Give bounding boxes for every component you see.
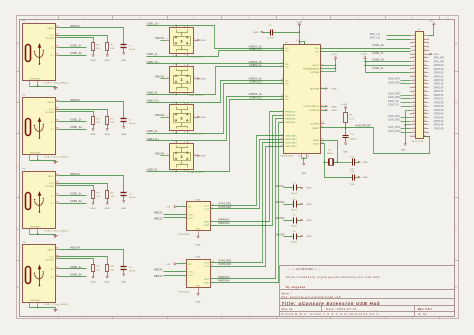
capacitor C3: [121, 193, 137, 200]
svg-text:TSTPLL/48MCLK: TSTPLL/48MCLK: [303, 106, 320, 108]
svg-text:USB1_D-: USB1_D-: [147, 53, 159, 56]
wire USB3_D- from P3: [59, 195, 87, 197]
svg-text:USB3_D+: USB3_D+: [70, 200, 83, 203]
svg-text:GPIO38: GPIO38: [434, 102, 444, 104]
svg-text:VBUS: VBUS: [47, 102, 54, 104]
label OVRCUR1: [218, 203, 231, 205]
svg-text:B: B: [17, 102, 19, 104]
junction vcc: [299, 31, 300, 42]
svg-text:5k1: 5k1: [111, 196, 116, 198]
svg-text:GPIO40: GPIO40: [434, 110, 444, 112]
wire XTAL1 to crystal: [321, 141, 338, 163]
label SPK_RN: [434, 61, 445, 63]
ground left of C9: [253, 31, 270, 34]
svg-text:GPIO29: GPIO29: [434, 69, 444, 71]
wire PWRON3 to hub: [211, 119, 284, 279]
label USBH3_D+ at hub: [249, 79, 263, 81]
svg-text:TBD: TBD: [350, 169, 355, 171]
svg-text:EXTMEM: EXTMEM: [310, 72, 319, 74]
junction reset/R9/C10: [345, 127, 347, 129]
svg-text:PWRON3: PWRON3: [218, 277, 230, 279]
label USB1_DP upstream: [373, 45, 385, 47]
wire USB1_D+ from P1: [59, 55, 87, 57]
svg-text:100nF: 100nF: [291, 193, 298, 195]
label OVRCUR3: [218, 261, 231, 263]
wire HBUS4 to esd pin5: [161, 155, 167, 157]
label CAM_DN1: [388, 119, 411, 122]
label USB4_D+: [70, 274, 83, 277]
svg-text:USB1_D+: USB1_D+: [373, 45, 385, 47]
svg-text:GPIO28: GPIO28: [434, 65, 444, 67]
svg-text:USBH3_D-: USBH3_D-: [249, 81, 262, 83]
wire HBUS3 to U1B OUT1: [164, 271, 187, 273]
usb connector P3: [23, 169, 70, 235]
svg-text:GPIO31: GPIO31: [434, 76, 444, 78]
svg-text:GPIO30: GPIO30: [434, 73, 444, 75]
power +5V at connector: [429, 20, 436, 25]
junction eeprom rail: [335, 65, 336, 70]
ground at esd U3 pin2: [198, 78, 207, 81]
label HBUS3 at esd: [155, 114, 165, 117]
resistor R4: [106, 117, 116, 128]
svg-text:100uF: 100uF: [129, 123, 136, 125]
label GPIO43: [434, 121, 444, 123]
svg-text:4.7k: 4.7k: [349, 118, 354, 120]
svg-text:USB_C_Plug_USB2.0: USB_C_Plug_USB2.0: [45, 230, 70, 232]
label USBH1_D+ at hub: [249, 46, 263, 48]
ground under U1B: [195, 288, 201, 304]
svg-text:BUSPWR: BUSPWR: [310, 89, 319, 91]
svg-text:100nF: 100nF: [267, 38, 274, 40]
label HBUS2 at esd: [155, 76, 165, 79]
label USB1_D+: [70, 52, 83, 55]
label PWRON2: [218, 223, 230, 225]
svg-text:OVRCUR1: OVRCUR1: [285, 136, 297, 138]
capacitor C9: [267, 25, 274, 39]
svg-text:GND: GND: [201, 117, 207, 119]
svg-text:VCONN: VCONN: [45, 186, 54, 188]
svg-text:USB1_D-: USB1_D-: [70, 44, 82, 47]
svg-text:USB4_D+: USB4_D+: [70, 274, 83, 277]
svg-text:HBUS4: HBUS4: [154, 276, 163, 278]
svg-text:USB2_D-: USB2_D-: [147, 92, 159, 95]
capacitor C5: [284, 183, 301, 196]
svg-text:Rev: 0.6.1: Rev: 0.6.1: [418, 308, 433, 311]
svg-text:PWRON1: PWRON1: [218, 220, 230, 222]
svg-text:HBUS1: HBUS1: [154, 212, 163, 214]
svg-text:GND: GND: [306, 188, 312, 190]
svg-text:GND: GND: [195, 302, 201, 304]
label GPIO35: [434, 91, 444, 93]
label HBUS3: [154, 270, 163, 272]
svg-text:SPK_RN: SPK_RN: [434, 61, 445, 63]
power +3.3V above R9: [340, 104, 347, 110]
svg-text:OVRCUR2: OVRCUR2: [218, 207, 231, 209]
junction shield P3: [37, 233, 39, 235]
svg-text:GND: GND: [105, 60, 111, 62]
label CAM_DP3: [388, 78, 411, 81]
svg-text:+3.3V: +3.3V: [360, 54, 367, 56]
svg-text:B: B: [455, 102, 457, 104]
label SPK_LP: [370, 34, 411, 36]
svg-text:PWRON2: PWRON2: [285, 115, 296, 117]
label GPIO36: [434, 95, 444, 97]
svg-text:SPK_LP: SPK_LP: [370, 34, 380, 36]
svg-text:C10: C10: [350, 134, 355, 136]
svg-text:D-: D-: [51, 121, 54, 123]
svg-text:E: E: [455, 287, 457, 289]
svg-text:HBUS2: HBUS2: [155, 76, 165, 79]
label CAM_DP2: [388, 93, 411, 96]
svg-text:GPIO36: GPIO36: [434, 95, 444, 97]
ground under U1A: [195, 231, 201, 247]
svg-text:USB_C_Plug_USB2.0: USB_C_Plug_USB2.0: [45, 304, 70, 306]
svg-text:100uF: 100uF: [129, 197, 136, 199]
ground under R1: [90, 54, 96, 62]
label CAM_DP1: [388, 115, 411, 118]
svg-text:E: E: [17, 287, 19, 289]
junction esd U4 pin1: [175, 102, 176, 103]
svg-text:GND: GND: [401, 150, 407, 152]
svg-text:HUB_RESET: HUB_RESET: [355, 126, 371, 128]
svg-text:IN1: IN1: [188, 207, 192, 209]
ground under R6: [105, 202, 111, 210]
label GPIO33: [434, 84, 444, 86]
ground below connector: [401, 143, 407, 152]
svg-text:17: 17: [281, 63, 283, 65]
label GPIO29: [434, 69, 444, 71]
no-connect marks left: [410, 42, 412, 137]
chassis ground P4: [54, 308, 58, 312]
usb connector P4: [23, 242, 70, 307]
svg-text:https://codeberg.org/argrento/: https://codeberg.org/argrento/uconsole-e…: [286, 275, 380, 279]
svg-text:6MHz: 6MHz: [327, 153, 333, 155]
svg-text:GPIO42: GPIO42: [434, 117, 444, 119]
svg-text:D: D: [17, 229, 19, 231]
svg-text:Id: 1/1: Id: 1/1: [418, 313, 427, 316]
ground at esd U2 pin2: [198, 39, 207, 42]
wire HBUS1 to esd pin5: [161, 40, 167, 42]
svg-text:C11: C11: [350, 157, 355, 159]
label VBUS3: [276, 218, 285, 220]
svg-text:RESET: RESET: [312, 128, 320, 130]
wire USB_UP_D+ hub to connector: [321, 48, 411, 50]
svg-text:EN1: EN1: [205, 279, 209, 281]
label GPIO44: [434, 125, 444, 127]
capacitor C7: [284, 215, 301, 228]
wire USB2_D- from P2: [59, 121, 87, 123]
svg-text:GND: GND: [201, 40, 207, 42]
svg-text:16: 16: [281, 66, 283, 68]
wire USB4_D+ esd to hub: [147, 97, 284, 141]
wire connector ground pins: [406, 111, 411, 143]
label HBUS4: [154, 276, 163, 278]
resistor R5: [92, 191, 102, 202]
label USB1_D+ at esd: [147, 22, 160, 25]
svg-text:EECLK: EECLK: [312, 65, 319, 67]
svg-text:GND: GND: [306, 220, 312, 222]
label USB2_D- at esd: [147, 92, 159, 95]
svg-text:CC1: CC1: [49, 257, 54, 259]
svg-text:HBUS4: HBUS4: [155, 153, 165, 156]
wire OVRCUR4 to hub: [211, 147, 284, 267]
svg-text:U1B: U1B: [195, 257, 200, 259]
svg-text:C: C: [17, 166, 19, 168]
svg-text:USB3_D+: USB3_D+: [147, 99, 160, 102]
svg-text:OUT1: OUT1: [188, 214, 194, 216]
svg-text:32: 32: [296, 40, 298, 42]
svg-text:GND: GND: [306, 236, 312, 238]
wire +5V to connector pin 2: [429, 26, 434, 36]
esd protection U2 USBLC6-2P6: [167, 26, 204, 59]
svg-text:GND: GND: [105, 208, 111, 210]
wire CC1 to R6: [59, 184, 108, 191]
svg-text:5k1: 5k1: [96, 48, 101, 50]
resistor R9: [344, 110, 354, 128]
label VBUS1: [276, 186, 285, 188]
ground under R8: [105, 276, 111, 284]
svg-text:GND: GND: [105, 281, 111, 283]
label USB1_DN upstream: [373, 53, 384, 55]
label HBUS1: [70, 25, 80, 28]
label USB2_D-: [70, 118, 82, 121]
svg-text:D-: D-: [51, 47, 54, 49]
svg-text:GND: GND: [90, 281, 96, 283]
label HBUS3: [70, 173, 80, 176]
svg-text:TUSB2046B: TUSB2046B: [280, 155, 294, 157]
title block: [280, 266, 455, 317]
svg-text:MXJ_PCE: MXJ_PCE: [412, 141, 423, 143]
svg-text:EN2: EN2: [205, 225, 209, 227]
svg-text:USB1_D-: USB1_D-: [373, 53, 384, 55]
svg-text:VBUS3: VBUS3: [276, 218, 285, 220]
label USB3_D+ at esd: [147, 99, 160, 102]
esd protection U3 USBLC6-2P6: [167, 64, 204, 97]
wire HBUS2 to U1A OUT2: [164, 217, 187, 219]
usb connector P2: [23, 95, 70, 161]
svg-text:OVRCUR3: OVRCUR3: [285, 143, 297, 145]
svg-text:IN2: IN2: [188, 264, 192, 266]
svg-text:OUT1: OUT1: [188, 272, 194, 274]
capacitor C13: [350, 172, 359, 186]
wire XTAL2 to crystal and C13: [321, 144, 353, 178]
junction shield P4: [37, 307, 39, 309]
label USBH1_D- at hub: [249, 49, 262, 51]
svg-text:VBUS: VBUS: [47, 249, 54, 251]
svg-text:HBUS2: HBUS2: [70, 99, 80, 102]
junction esd U5 pin1: [175, 140, 176, 141]
wire USB_UP_D- hub to connector: [321, 51, 411, 53]
svg-text:15: 15: [307, 156, 309, 158]
svg-text:GPIO39: GPIO39: [434, 106, 444, 108]
svg-text:+5V: +5V: [166, 207, 171, 209]
wire shield of P2: [30, 160, 56, 162]
junction esd U5 pin3: [175, 171, 176, 172]
label CAM_DN0: [388, 130, 411, 133]
label VBUS2: [276, 202, 285, 204]
label VBUS4: [276, 234, 285, 236]
svg-text:D-: D-: [51, 195, 54, 197]
svg-text:VBUS2: VBUS2: [276, 202, 285, 204]
svg-text:GND: GND: [90, 60, 96, 62]
label USB2_D+: [70, 126, 83, 129]
label USB3_D+: [70, 200, 83, 203]
svg-text:OC1: OC1: [204, 205, 209, 207]
wire USB2_D- esd to hub: [147, 67, 284, 95]
svg-text:100uF: 100uF: [129, 271, 136, 273]
svg-text:VCONN: VCONN: [45, 260, 54, 262]
svg-text:GND: GND: [105, 134, 111, 136]
label HUB_RESET: [355, 126, 371, 128]
connector J1 uConsole extension: [411, 29, 429, 143]
wire HBUS4 to U1B OUT2: [164, 275, 187, 277]
label SPK_RP: [434, 58, 445, 60]
label USB2_DN: [373, 68, 384, 70]
svg-text:USBH3_D+: USBH3_D+: [249, 79, 263, 81]
svg-text:USBH4_D+: USBH4_D+: [249, 94, 263, 96]
svg-text:GND: GND: [306, 204, 312, 206]
esd protection U4 USBLC6-2P6: [167, 103, 204, 136]
svg-text:GPIO32: GPIO32: [434, 80, 444, 82]
wire CC1 to R2: [59, 36, 108, 43]
svg-text:HBUS1: HBUS1: [155, 37, 165, 40]
svg-text:GND: GND: [343, 152, 349, 154]
svg-text:TSTMODE: TSTMODE: [309, 110, 320, 112]
svg-text:OUT2: OUT2: [188, 275, 194, 277]
svg-text:20: 20: [281, 79, 283, 81]
wire USB2_D+ from P2: [59, 129, 87, 131]
svg-text:GND: GND: [363, 177, 369, 179]
svg-text:B5: B5: [56, 36, 59, 38]
wire +3.3V to hub vcc pins: [300, 26, 305, 45]
svg-text:Title: uConsole Extension USB: Title: uConsole Extension USB Hub: [282, 301, 381, 306]
svg-text:D2+: D2+: [285, 64, 290, 66]
svg-text:GPIO35: GPIO35: [434, 91, 444, 93]
esd protection U5 USBLC6-2P6: [167, 141, 204, 174]
label OVRCUR4: [218, 264, 231, 266]
wire C9 to +3.3V rail: [273, 32, 300, 34]
svg-text:D4+: D4+: [285, 96, 290, 98]
svg-text:DO-: DO-: [315, 52, 319, 54]
wire HBUS4 (VBUS of P4): [59, 250, 124, 267]
ground at TSTMODE pin: [321, 109, 338, 112]
label CAM_CN: [388, 104, 411, 107]
junction esd U2 pin3: [175, 55, 176, 56]
ground at connector right: [429, 53, 439, 56]
junction connector ground: [404, 124, 406, 126]
label GPIO40: [434, 110, 444, 112]
svg-text:USBLC6-2P6: USBLC6-2P6: [189, 95, 204, 97]
label HBUS4 at esd: [155, 153, 165, 156]
capacitor C6: [284, 199, 301, 212]
junction second usb rail: [364, 61, 365, 66]
label HBUS1: [154, 212, 163, 214]
svg-text:GND: GND: [90, 208, 96, 210]
svg-text:GPIO45: GPIO45: [434, 128, 444, 130]
svg-text:PWRON1: PWRON1: [285, 112, 296, 114]
ground under C3: [121, 200, 127, 210]
wire VCONN to R3: [59, 112, 94, 117]
label GPIO41: [434, 114, 444, 116]
power +5V at U1B: [166, 263, 187, 266]
svg-text:USB3_D-: USB3_D-: [70, 192, 82, 195]
svg-text:USB1_D+: USB1_D+: [147, 22, 160, 25]
frame row ticks and letters: [17, 42, 459, 289]
svg-text:5k1: 5k1: [96, 122, 101, 124]
label GPIO30: [434, 73, 444, 75]
wire USB1_D+ esd to hub: [147, 26, 284, 49]
svg-text:GPIO33: GPIO33: [434, 84, 444, 86]
svg-text:5k1: 5k1: [111, 270, 116, 272]
svg-text:USBH1_D+: USBH1_D+: [249, 46, 263, 48]
ground under R7: [90, 276, 96, 284]
label USB4_D-: [70, 266, 82, 269]
svg-text:19: 19: [281, 82, 283, 84]
svg-text:HBUS1: HBUS1: [70, 25, 80, 28]
svg-text:GND: GND: [121, 281, 127, 283]
wire CC1 to R4: [59, 110, 108, 117]
junction esd U4 pin3: [175, 132, 176, 133]
svg-text:23: 23: [281, 95, 283, 97]
junction esd U3 pin1: [175, 63, 176, 64]
svg-text:VBUS: VBUS: [47, 176, 54, 178]
svg-text:OVRCUR3: OVRCUR3: [218, 261, 231, 263]
wire USB2_DN to connector: [366, 65, 411, 67]
label HBUS4: [70, 246, 80, 249]
svg-text:OVRCUR1: OVRCUR1: [218, 203, 231, 205]
svg-text:GND: GND: [332, 106, 338, 108]
svg-text:GND: GND: [253, 32, 259, 34]
capacitor C2: [121, 119, 137, 126]
svg-text:PWRON2: PWRON2: [218, 223, 230, 225]
svg-text:GPIO34: GPIO34: [434, 87, 444, 89]
svg-text:100nF: 100nF: [291, 209, 298, 211]
resistor R6: [106, 191, 116, 202]
wire HBUS2 (VBUS of P2): [59, 102, 124, 119]
svg-text:Sheet: /: Sheet: /: [282, 292, 293, 295]
svg-text:USB_C_Plug_USB2.0: USB_C_Plug_USB2.0: [45, 82, 70, 84]
label CAM_CP: [388, 100, 411, 103]
svg-text:GPIO41: GPIO41: [434, 114, 444, 116]
svg-text:TPS2046B: TPS2046B: [178, 234, 190, 236]
usb connector P1: [23, 21, 70, 87]
label GPIO39: [434, 106, 444, 108]
svg-text:KiCad E.D.A. kicad 7.0.5-7.0.: KiCad E.D.A. kicad 7.0.5-7.0.5~ubuntu22.…: [282, 312, 379, 316]
svg-text:27: 27: [321, 122, 323, 124]
svg-text:+5V: +5V: [166, 264, 171, 266]
svg-text:5k1: 5k1: [96, 270, 101, 272]
svg-text:100nF: 100nF: [291, 226, 298, 228]
ground at esd U4 pin2: [198, 116, 207, 119]
svg-text:22: 22: [281, 98, 283, 100]
wire HBUS1 (VBUS of P1): [59, 28, 124, 45]
label GPIO42: [434, 117, 444, 119]
svg-text:5k1: 5k1: [111, 48, 116, 50]
ground right of C13: [358, 176, 368, 179]
power +3.3V second usb: [360, 54, 367, 59]
ground right of C7: [301, 219, 312, 222]
junction crystal right: [337, 161, 339, 163]
ground at BUSPWR pin: [321, 88, 338, 91]
label GPIO28: [434, 65, 444, 67]
svg-text:VBUS1: VBUS1: [276, 186, 285, 188]
label HBUS2: [70, 99, 80, 102]
wire USB2_D+ esd to hub: [147, 63, 284, 65]
svg-text:USBH1_D-: USBH1_D-: [249, 49, 262, 51]
label USB4_D- at esd: [147, 169, 159, 172]
wire VCONN to R1: [59, 38, 94, 43]
power switch U1B TPS2046B: [178, 257, 214, 294]
